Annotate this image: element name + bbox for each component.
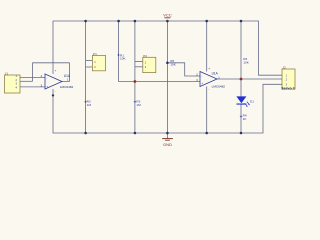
svg-text:D1: D1 bbox=[250, 99, 254, 103]
svg-text:1M: 1M bbox=[87, 103, 92, 107]
svg-text:VCC: VCC bbox=[163, 13, 172, 18]
svg-text:-: - bbox=[55, 90, 56, 94]
svg-text:1M: 1M bbox=[136, 103, 141, 107]
svg-text:P1: P1 bbox=[93, 52, 97, 56]
svg-text:GND: GND bbox=[163, 142, 172, 147]
svg-text:J2: J2 bbox=[282, 65, 286, 69]
svg-text:U1A: U1A bbox=[212, 71, 219, 75]
svg-text:-: - bbox=[46, 76, 47, 80]
svg-text:-: - bbox=[201, 75, 202, 79]
svg-text:+: + bbox=[208, 66, 210, 70]
svg-text:LMC6482: LMC6482 bbox=[60, 85, 74, 89]
svg-text:+: + bbox=[46, 85, 48, 89]
svg-text:10K: 10K bbox=[243, 60, 249, 64]
svg-text:Servo 1: Servo 1 bbox=[281, 87, 295, 91]
svg-text:10K: 10K bbox=[170, 62, 176, 66]
svg-text:P2: P2 bbox=[143, 54, 147, 58]
svg-text:+: + bbox=[201, 81, 203, 85]
svg-text:LMC6482: LMC6482 bbox=[212, 85, 226, 89]
svg-text:J1: J1 bbox=[5, 72, 9, 76]
svg-text:10K: 10K bbox=[120, 57, 126, 61]
svg-text:+: + bbox=[55, 69, 57, 73]
svg-text:-: - bbox=[208, 87, 209, 91]
